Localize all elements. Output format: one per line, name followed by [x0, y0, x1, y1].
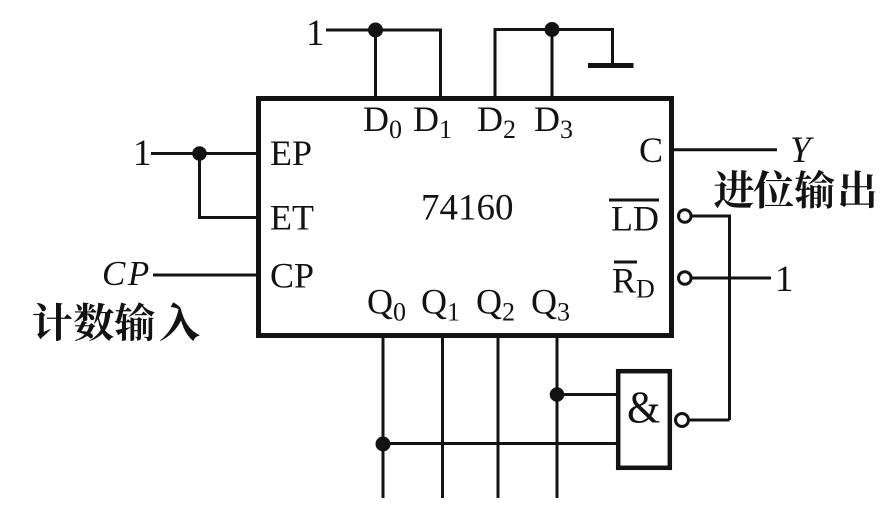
- svg-text:D0: D0: [363, 99, 402, 144]
- label 74160: [421, 188, 514, 229]
- pin label RD (active-low reset, overbar): [612, 261, 655, 304]
- wire Q3 to NAND input: [557, 393, 618, 396]
- svg-text:CP: CP: [102, 254, 152, 293]
- wire D0 pin drop: [374, 30, 377, 98]
- bubble on RD pin: [679, 272, 692, 285]
- pin label LD (active-low, overbar): [609, 199, 659, 239]
- bubble on LD pin: [679, 210, 692, 223]
- svg-text:D2: D2: [477, 99, 516, 144]
- junction dot D3 tie: [545, 22, 560, 37]
- node Y label: [790, 130, 814, 171]
- bubble on NAND output: [676, 414, 689, 427]
- pin label Q0: [367, 282, 406, 327]
- svg-text:Q2: Q2: [476, 282, 515, 327]
- junction dot EP/ET tie: [192, 146, 207, 161]
- wire NAND output to LD: [690, 419, 730, 422]
- wire LD to NAND output: [692, 216, 730, 420]
- wire Q3 drop: [556, 338, 559, 498]
- wire Q2 drop: [497, 338, 500, 498]
- pin label Q3: [531, 282, 570, 327]
- wire Q0 to NAND input: [383, 442, 618, 445]
- pin label ET: [270, 198, 314, 238]
- svg-text:CP: CP: [270, 256, 314, 296]
- ground symbol: [588, 63, 634, 68]
- node CP label: [102, 254, 152, 293]
- svg-text:&: &: [627, 381, 660, 433]
- pin label Q1: [421, 282, 460, 327]
- pin label D1: [413, 99, 452, 144]
- junction dot D0/D1 tie: [368, 23, 383, 38]
- wire to ET: [200, 154, 259, 218]
- svg-text:ET: ET: [270, 198, 314, 238]
- svg-text:LD: LD: [611, 199, 659, 239]
- svg-text:EP: EP: [270, 133, 312, 173]
- svg-text:1: 1: [775, 259, 794, 300]
- svg-text:D3: D3: [534, 99, 573, 144]
- pin label CP (pin): [270, 256, 314, 296]
- svg-text:C: C: [639, 130, 663, 170]
- pin label Q2: [476, 282, 515, 327]
- constant 1 label (EP/ET enable): [133, 133, 152, 174]
- annotation 进位输出 (carry output): [714, 170, 875, 209]
- wire CP to pin: [153, 274, 258, 277]
- svg-text:RD: RD: [612, 261, 655, 304]
- pin label C: [639, 130, 663, 170]
- wire D3 pin drop: [551, 30, 554, 99]
- svg-text:74160: 74160: [421, 188, 514, 229]
- IC U1 74160 body: [259, 99, 672, 336]
- constant 1 label (top, preset data): [306, 13, 325, 54]
- NAND gate & symbol: [627, 381, 660, 433]
- wire Q0 drop: [382, 338, 385, 498]
- svg-text:Q3: Q3: [531, 282, 570, 327]
- pin label EP: [270, 133, 312, 173]
- svg-text:Y: Y: [790, 130, 814, 171]
- wire RD to 1: [692, 277, 771, 280]
- wire top-left: 1 to D0/D1: [326, 30, 441, 98]
- junction dot Q0 to gate: [376, 437, 391, 452]
- pin label D2: [477, 99, 516, 144]
- pin label D3: [534, 99, 573, 144]
- svg-text:D1: D1: [413, 99, 452, 144]
- svg-text:1: 1: [306, 13, 325, 54]
- wire 1 to EP: [151, 152, 258, 155]
- NAND gate U2 body: [618, 371, 670, 468]
- pin label D0: [363, 99, 402, 144]
- annotation 计数输入 (count input): [33, 302, 199, 341]
- junction dot Q3 to gate: [550, 387, 565, 402]
- wire Q1 drop: [441, 338, 444, 498]
- constant 1 label (RD inactive): [775, 259, 794, 300]
- svg-text:1: 1: [133, 133, 152, 174]
- wire D2/D3 to ground: [495, 30, 613, 99]
- wire C output to Y: [674, 148, 777, 151]
- svg-text:Q1: Q1: [421, 282, 460, 327]
- svg-text:Q0: Q0: [367, 282, 406, 327]
